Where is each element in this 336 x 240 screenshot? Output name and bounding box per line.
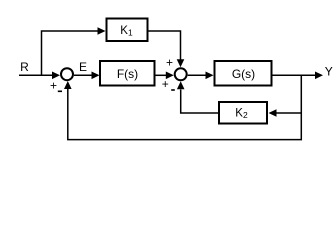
wire arrow into F(s) bbox=[92, 72, 100, 80]
svg-text:F(s): F(s) bbox=[117, 67, 138, 81]
wire arrow into S2 from top bbox=[177, 59, 185, 67]
wire G(s) output to Y bbox=[273, 74, 316, 76]
svg-text:+: + bbox=[162, 77, 169, 91]
wire arrow into S1 from bottom bbox=[64, 81, 72, 89]
wire from feedback branch into K2 bbox=[276, 112, 301, 114]
svg-text:+: + bbox=[50, 78, 57, 92]
svg-text:G(s): G(s) bbox=[232, 67, 255, 81]
svg-text:+: + bbox=[166, 56, 173, 70]
wire arrow into S2 from bottom bbox=[177, 81, 185, 89]
summing junction S2 bbox=[175, 68, 187, 80]
svg-text:K2: K2 bbox=[235, 108, 248, 121]
wire R input horizontal bbox=[19, 74, 53, 76]
block F(s) bbox=[100, 61, 155, 86]
wire feedback branch down from output bbox=[68, 75, 301, 139]
svg-text:E: E bbox=[79, 60, 87, 74]
sign - at S1 bottom input bbox=[58, 91, 62, 93]
wire arrow into K2 bbox=[269, 109, 277, 117]
wire arrow into S2 from left bbox=[166, 72, 174, 80]
svg-text:Y: Y bbox=[325, 64, 333, 78]
wire S2 output to G(s) bbox=[188, 74, 206, 76]
wire arrow into K1 bbox=[98, 27, 106, 35]
wire arrow into G(s) bbox=[206, 72, 214, 80]
wire F(s) output to summing junction S2 bbox=[156, 74, 167, 76]
block K1 bbox=[107, 19, 148, 42]
wire K1 output to summing junction S2 top bbox=[149, 31, 181, 60]
wire K2 output to S2 bottom bbox=[181, 90, 218, 114]
svg-text:K1: K1 bbox=[120, 25, 133, 38]
block G(s) bbox=[215, 61, 272, 86]
wire arrow to output Y bbox=[315, 72, 323, 80]
summing junction S1 bbox=[61, 68, 73, 80]
wire branch from R up to K1 bbox=[42, 31, 99, 75]
wire S1 output to F(s) bbox=[74, 74, 92, 76]
block K2 bbox=[219, 102, 267, 124]
wire arrow into summing junction S1 bbox=[52, 72, 60, 80]
svg-text:R: R bbox=[20, 60, 29, 74]
sign - at S2 bottom input bbox=[171, 89, 175, 91]
